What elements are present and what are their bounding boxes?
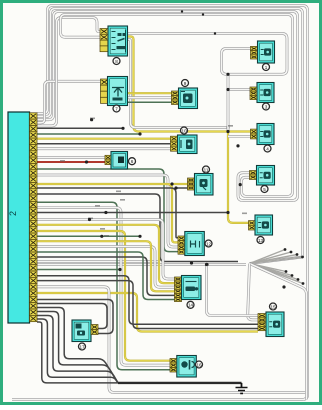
lamp M4 box bbox=[195, 174, 214, 196]
lamp R5 number bbox=[257, 237, 264, 244]
sensor M7 box bbox=[177, 356, 197, 378]
device B1 box bbox=[72, 320, 91, 342]
lamp M4 number bbox=[203, 166, 210, 173]
lamp M2 number bbox=[181, 127, 188, 134]
wire hub to upper right verticals bbox=[250, 257, 303, 264]
wire row black to R6 pin4 bbox=[37, 281, 258, 329]
switch M6 number bbox=[187, 301, 194, 308]
junction dot R3 crossing bbox=[226, 130, 229, 133]
wire row white trunk to hub bbox=[37, 260, 160, 263]
wire row black to R6 pin3 bbox=[37, 276, 258, 325]
lamp M2 box bbox=[178, 135, 198, 154]
wire T1 right white down join bbox=[128, 40, 229, 128]
wire ground stair3 bbox=[37, 316, 118, 383]
svg-text:2: 2 bbox=[8, 211, 18, 216]
wire tap to M4 yellow bbox=[172, 183, 188, 185]
junction dot trunk2 bbox=[205, 263, 208, 266]
lamp M1 box bbox=[179, 88, 198, 109]
wire row yellow to R6 lower bbox=[37, 293, 258, 332]
wire tap to M4 black bbox=[176, 187, 188, 189]
wire pin3 riser to lamp R4 wrap white bbox=[37, 12, 298, 201]
wire row yellow to M7 bbox=[37, 231, 170, 361]
lamp R3 box bbox=[257, 124, 274, 145]
wire label marks bbox=[60, 118, 247, 237]
junction dot M4 tap yellow bbox=[170, 182, 173, 185]
junction dot R6 feed bbox=[205, 263, 208, 266]
wire row yellow to M5 pin2 bbox=[37, 184, 179, 242]
relay M5 number bbox=[205, 240, 212, 247]
lamp R1 number bbox=[263, 64, 270, 71]
wire branch vertical white upper bbox=[227, 74, 230, 131]
connector X1 pin column bbox=[30, 113, 38, 322]
wire row to M2 black bbox=[37, 143, 171, 145]
wire T1 right yellow down to lamp R3 bbox=[128, 37, 251, 132]
lamp R1 pins bbox=[251, 46, 258, 59]
wire row white to M6 pin1 bbox=[37, 220, 175, 280]
wire row to M2 white bbox=[37, 147, 171, 150]
wire T2 to M1 white bbox=[128, 96, 172, 99]
wire hub upper fan bbox=[250, 248, 304, 263]
wire stub to lamp R2 white bbox=[228, 88, 250, 91]
svg-text:5: 5 bbox=[263, 187, 266, 192]
svg-text:8: 8 bbox=[115, 59, 118, 64]
wire row white to M5 pin3 bbox=[37, 175, 179, 247]
wire row white bottom long bbox=[37, 287, 307, 393]
relay M5 box bbox=[185, 232, 205, 256]
switch T2 pins bbox=[101, 79, 109, 103]
svg-text:12: 12 bbox=[206, 241, 212, 246]
lamp R3 pins bbox=[251, 129, 258, 139]
wire pin2 riser to hub white bbox=[37, 9, 303, 258]
wire row green to M6 pin6 bbox=[37, 252, 175, 300]
svg-text:15: 15 bbox=[270, 304, 276, 309]
wire row green short2 bbox=[37, 268, 122, 271]
wire row white to M6 pin3 bbox=[37, 247, 175, 288]
switch T1 box bbox=[108, 26, 128, 56]
top trunk dots bbox=[181, 10, 216, 34]
lamp R5 pins bbox=[249, 221, 256, 230]
wire row black short upper bbox=[37, 127, 125, 130]
junction dot corner wire bbox=[282, 285, 285, 288]
svg-text:6: 6 bbox=[131, 159, 134, 164]
device M3 box bbox=[111, 152, 128, 170]
lamp R4 box bbox=[257, 166, 275, 186]
switch T2 box bbox=[108, 77, 128, 106]
junction dot R2 stub bbox=[226, 88, 229, 91]
wire row black to M5 pin1 bbox=[37, 188, 179, 238]
svg-text:1: 1 bbox=[265, 65, 268, 70]
wire hub lower fan bbox=[250, 264, 305, 285]
wire row black to B1 pin1 bbox=[37, 304, 107, 329]
wire ground stair5 bbox=[37, 322, 118, 383]
wire pin5 riser to switch T1 white bbox=[37, 18, 100, 126]
wire pin4 riser to switch T2 white bbox=[37, 81, 101, 123]
wire ground stair1 bbox=[37, 308, 118, 383]
wire trunk down to R6 pin1 bbox=[207, 265, 259, 316]
ground symbol bbox=[236, 383, 248, 394]
svg-text:16: 16 bbox=[196, 362, 202, 367]
wire row dark join bbox=[37, 212, 228, 214]
wire row yellow to M6 pin2 bbox=[37, 225, 175, 283]
wire branch vertical yellow lower to R5 bbox=[228, 132, 249, 223]
wire row to M3 red bbox=[37, 161, 106, 163]
lamp M1 pins bbox=[172, 91, 179, 105]
svg-text:4: 4 bbox=[266, 146, 269, 151]
svg-text:11: 11 bbox=[204, 167, 209, 172]
svg-text:7: 7 bbox=[115, 106, 118, 111]
svg-text:3: 3 bbox=[265, 104, 268, 109]
device B1 number bbox=[79, 343, 86, 350]
lamp R2 box bbox=[257, 83, 274, 103]
junction dot R1 wrap bbox=[226, 73, 229, 76]
switch M6 pins bbox=[175, 277, 182, 302]
svg-text:14: 14 bbox=[188, 303, 194, 308]
wire T2 to M1 yellow bbox=[128, 92, 172, 94]
wire ground stair2 bbox=[37, 312, 118, 383]
junction dot M4 tap black bbox=[174, 186, 177, 189]
wire ground trunk bbox=[118, 382, 242, 384]
junction dot red wire bbox=[85, 160, 88, 163]
device M3 number bbox=[129, 158, 136, 165]
wire row dark to hub bbox=[37, 194, 238, 262]
wire row black to B1 pin2 bbox=[37, 300, 113, 334]
lamp R3 number bbox=[264, 145, 271, 152]
lamp R5 box bbox=[255, 215, 273, 235]
switch M6 box bbox=[182, 276, 202, 300]
wire row to M3 white bbox=[37, 156, 106, 159]
lamp R1 box bbox=[258, 41, 275, 63]
wire row black to M6 pin5 bbox=[37, 257, 175, 295]
junction dot dark join bbox=[226, 211, 229, 214]
junction dots various bbox=[88, 118, 242, 238]
switch T2 number bbox=[113, 105, 120, 112]
lamp M2 pins bbox=[171, 136, 178, 151]
lamp M4 pins bbox=[188, 178, 195, 190]
wire T1 right to lamp R1 white bbox=[128, 34, 288, 75]
sensor M7 number bbox=[196, 361, 203, 368]
relay M5 pins bbox=[178, 236, 185, 254]
connector X1 main harness block bbox=[8, 112, 30, 323]
wire hub to bottom right corner bbox=[250, 264, 307, 400]
lamp R4 pins bbox=[250, 171, 257, 180]
wire row white to M7 bbox=[37, 208, 170, 366]
lamp R2 number bbox=[263, 103, 270, 110]
junction dot join x228 bbox=[226, 126, 229, 129]
svg-text:13: 13 bbox=[258, 238, 264, 243]
wire row white trunk2 to hub bbox=[37, 263, 246, 266]
wire T1 pin2 top trunk white bbox=[61, 15, 293, 197]
junction dot trunk bbox=[190, 261, 193, 264]
lamp R6 pins bbox=[258, 314, 266, 331]
svg-text:17: 17 bbox=[79, 344, 85, 349]
wire row yellow to M6 pin4 bbox=[37, 241, 175, 291]
wire hub down to R6 pin2 bbox=[248, 264, 258, 320]
sensor M7 pins bbox=[170, 359, 177, 373]
wire stub to lamp R3 lower pin white bbox=[228, 135, 251, 138]
lamp M1 number bbox=[182, 80, 189, 87]
wire T2 to M1 green bbox=[128, 101, 172, 103]
wire row green short upper bbox=[37, 132, 142, 135]
wire row to M2 yellow bbox=[37, 138, 171, 140]
lamp R6 box bbox=[266, 312, 284, 337]
wire row green short bbox=[37, 235, 142, 238]
svg-text:9: 9 bbox=[184, 81, 187, 86]
wire ground stair4 bbox=[37, 319, 118, 383]
wire row green to M5 pin4 bbox=[37, 169, 179, 252]
switch T1 number bbox=[113, 58, 120, 65]
lamp R6 number bbox=[270, 303, 277, 310]
lamp R2 pins bbox=[250, 87, 257, 100]
device M3 pins bbox=[105, 155, 111, 164]
device B1 pins bbox=[91, 325, 98, 335]
lamp R4 number bbox=[261, 186, 268, 193]
svg-text:10: 10 bbox=[181, 128, 187, 133]
wire row green to M7 bbox=[37, 202, 170, 370]
switch T1 pins bbox=[100, 29, 108, 52]
